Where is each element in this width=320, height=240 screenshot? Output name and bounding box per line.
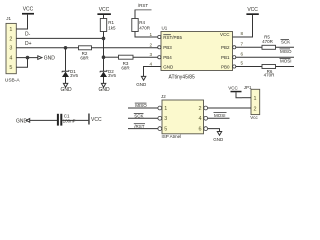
svg-text:8: 8 (241, 31, 244, 36)
svg-text:VCC: VCC (99, 7, 110, 13)
svg-text:J2: J2 (161, 94, 166, 99)
svg-text:RST/PB5: RST/PB5 (163, 35, 182, 40)
svg-text:4: 4 (9, 55, 12, 61)
svg-text:470R: 470R (139, 25, 151, 30)
svg-text:PB0: PB0 (221, 64, 230, 69)
svg-text:PB1: PB1 (221, 55, 230, 60)
svg-text:3: 3 (164, 116, 167, 122)
svg-text:GND: GND (44, 56, 56, 62)
svg-text:68R: 68R (80, 56, 89, 61)
svg-text:1k5: 1k5 (108, 25, 116, 30)
svg-text:USB-A: USB-A (5, 78, 20, 84)
svg-text:1: 1 (9, 27, 12, 33)
svg-text:GND: GND (163, 64, 174, 69)
svg-text:68R: 68R (121, 65, 130, 70)
svg-text:MISO: MISO (135, 103, 147, 108)
svg-text:4: 4 (199, 116, 202, 122)
svg-text:MOSI: MOSI (214, 113, 226, 118)
svg-text:6: 6 (241, 51, 244, 56)
svg-text:4: 4 (149, 62, 152, 67)
svg-text:MISO: MISO (280, 49, 292, 54)
svg-text:SCK: SCK (281, 40, 290, 45)
svg-text:1: 1 (149, 32, 152, 37)
svg-text:VCC: VCC (91, 117, 102, 123)
svg-text:5: 5 (164, 126, 167, 132)
svg-text:2: 2 (149, 42, 152, 47)
svg-text:6: 6 (199, 126, 202, 132)
svg-text:D-: D- (25, 31, 31, 37)
svg-text:/RST: /RST (134, 124, 145, 129)
svg-text:3V6: 3V6 (108, 73, 117, 78)
svg-text:7: 7 (241, 42, 244, 47)
svg-text:MOSI: MOSI (280, 59, 292, 64)
svg-text:PB4: PB4 (163, 55, 172, 60)
svg-text:D+: D+ (25, 41, 32, 47)
svg-text:ATtiny45/85: ATtiny45/85 (169, 74, 196, 80)
svg-text:Vcc: Vcc (250, 115, 258, 120)
svg-text:GND: GND (16, 119, 28, 125)
svg-text:5: 5 (9, 65, 12, 71)
svg-text:3V6: 3V6 (70, 73, 79, 78)
svg-text:2: 2 (9, 36, 12, 42)
svg-text:3: 3 (9, 46, 12, 52)
svg-text:PB2: PB2 (221, 45, 230, 50)
svg-text:GND: GND (61, 87, 73, 93)
svg-text:VCC: VCC (23, 7, 34, 13)
svg-text:GND: GND (213, 137, 224, 142)
svg-text:5: 5 (241, 61, 244, 66)
svg-text:1: 1 (164, 106, 167, 112)
svg-text:VCC: VCC (220, 32, 230, 37)
svg-text:3: 3 (149, 52, 152, 57)
svg-text:ISP Atmel: ISP Atmel (162, 134, 182, 139)
svg-text:470R: 470R (264, 73, 276, 78)
svg-text:2: 2 (254, 106, 257, 112)
svg-text:U1: U1 (162, 25, 168, 30)
svg-text:2: 2 (199, 106, 202, 112)
svg-text:VCC: VCC (228, 86, 238, 91)
svg-text:VCC: VCC (247, 7, 258, 13)
svg-text:470R: 470R (262, 39, 274, 44)
svg-text:1: 1 (254, 96, 257, 102)
svg-text:SCK: SCK (134, 114, 143, 119)
svg-text:R1: R1 (108, 20, 114, 25)
svg-text:R4: R4 (139, 20, 145, 25)
svg-text:J1: J1 (6, 16, 11, 21)
svg-text:/RST: /RST (138, 3, 149, 8)
svg-text:GND: GND (136, 82, 147, 87)
svg-text:100nF: 100nF (63, 119, 76, 124)
svg-text:GND: GND (99, 87, 111, 93)
svg-text:PB3: PB3 (163, 45, 172, 50)
